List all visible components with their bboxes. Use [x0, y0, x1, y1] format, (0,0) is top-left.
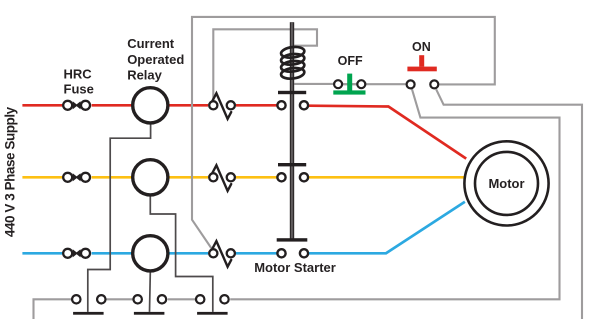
phase line L2 yellow — [22, 176, 464, 179]
current operated relay coil 3 — [133, 236, 168, 271]
starter crossbar row 1 — [278, 91, 306, 94]
fuse F3 (blue phase) — [63, 249, 90, 258]
contact SW3 (blue phase isolator) — [209, 249, 235, 257]
svg-text:Operated: Operated — [127, 52, 184, 67]
fuse F2 (yellow phase) — [63, 173, 90, 182]
svg-text:Relay: Relay — [127, 68, 162, 83]
wire: overload contact interconnections and left drop — [34, 299, 196, 319]
starter crossbar row 2 — [278, 163, 306, 166]
heater element 1 — [73, 312, 104, 315]
overload contacts pair 1 — [72, 295, 105, 303]
wire: between OFF contacts (under green stem) — [338, 83, 361, 85]
svg-text:Motor: Motor — [488, 176, 524, 191]
wire: inner control loop (from red-phase contact to coil top) — [213, 29, 317, 100]
wire: ON left terminal down to overload contacts (right inner vertical and bottom run) — [230, 89, 559, 299]
starter coil — [280, 46, 304, 80]
overload contacts pair 3 — [196, 295, 229, 303]
svg-text:440 V 3 Phase Supply: 440 V 3 Phase Supply — [3, 106, 18, 237]
starter contacts row 2 — [277, 173, 308, 181]
starter crossbar row 3 — [277, 238, 308, 241]
svg-text:OFF: OFF — [338, 54, 363, 68]
ON push button (red, normally open) — [407, 67, 436, 72]
starter contacts row 1 — [277, 101, 308, 109]
wire: OFF to ON segment — [343, 83, 405, 85]
phase line L3 blue — [22, 202, 465, 254]
fuse F1 (HRC fuse, red phase) — [63, 101, 90, 110]
contact SW1 (red phase isolator) — [209, 101, 235, 109]
phase line L1 red — [22, 105, 466, 158]
OFF contacts — [334, 80, 365, 88]
svg-text:HRC: HRC — [64, 67, 93, 82]
wire: coil bottom to OFF button — [294, 83, 333, 85]
wire: relay 2 bottom to heater 3 (thin dark) — [150, 197, 213, 312]
starter contacts row 3 — [277, 249, 308, 257]
svg-text:Motor Starter: Motor Starter — [254, 260, 336, 275]
contact SW2 (yellow phase isolator) — [209, 173, 235, 181]
current operated relay coil 2 — [133, 160, 168, 195]
motor M — [464, 141, 548, 225]
OFF push button (green, normally closed) — [347, 74, 352, 91]
wire: ON right terminal down right outer vertical — [436, 89, 582, 319]
wire: outer control loop (latch wire from blue-phase contact up over top to ON right terminal) — [192, 17, 495, 250]
svg-text:Current: Current — [127, 36, 175, 51]
current operated relay coil 1 — [133, 88, 168, 123]
ON contacts — [407, 80, 439, 88]
heater element 2 — [134, 312, 165, 315]
wire: relay 1 bottom to heater 1 (thin dark) — [88, 125, 151, 312]
motor starter plunger bar — [290, 22, 294, 240]
svg-text:Fuse: Fuse — [64, 82, 94, 97]
svg-text:ON: ON — [412, 40, 431, 54]
overload contacts pair 2 — [134, 295, 167, 303]
heater element 3 — [197, 312, 228, 315]
wire: relay 3 bottom to heater 2 (thin dark) — [149, 272, 152, 312]
